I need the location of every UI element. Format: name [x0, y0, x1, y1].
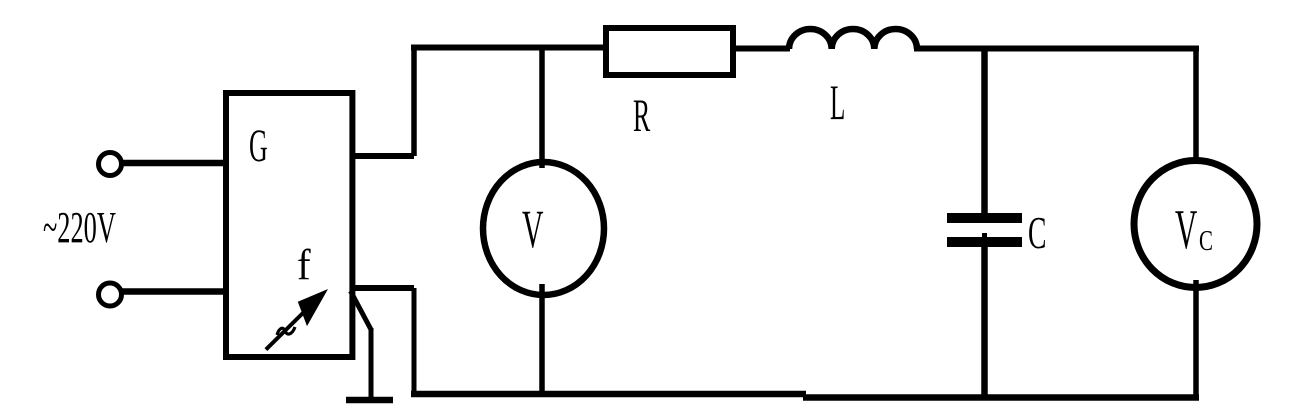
wire V_C top lead [1193, 46, 1199, 163]
voltmeter V circle [483, 162, 604, 295]
arrow shaft (frequency adjust) [266, 309, 307, 350]
svg-text:f: f [297, 242, 311, 289]
wire top rail to resistor [411, 45, 606, 51]
wire V_C bottom lead [1193, 280, 1199, 401]
voltmeter VC circle [1134, 161, 1257, 288]
wire bottom rail right segment [803, 394, 1199, 401]
capacitor inter-plate stub [982, 233, 987, 240]
wire G lower output [352, 285, 414, 291]
wire inductor to top right corner [914, 46, 1199, 52]
wire bottom rail left segment [411, 391, 806, 398]
capacitor C bottom plate [947, 237, 1022, 247]
wire lower terminal to G [122, 288, 227, 295]
capacitor C top plate [947, 213, 1022, 223]
svg-text:C: C [1199, 225, 1213, 257]
svg-text:~220V: ~220V [43, 203, 116, 252]
squiggle on arrow shaft [277, 327, 295, 335]
svg-text:R: R [633, 90, 651, 142]
wire voltmeter V top lead [539, 45, 545, 168]
wire capacitor top lead [981, 48, 988, 218]
svg-text:C: C [1028, 208, 1046, 259]
generator box G [226, 93, 352, 357]
resistor R [606, 28, 733, 75]
svg-text:V: V [522, 200, 543, 259]
wire upper terminal to G [122, 160, 227, 167]
wire voltmeter V bottom lead [539, 284, 545, 397]
svg-text:L: L [830, 75, 845, 131]
terminal lower left [99, 283, 122, 306]
svg-text:V: V [1175, 198, 1197, 260]
switch blade diagonal [351, 291, 372, 331]
wire G upper output [352, 153, 414, 159]
arrow head [298, 289, 328, 326]
svg-text:G: G [249, 120, 268, 172]
inductor L [789, 29, 917, 49]
switch T-bar [346, 397, 393, 404]
switch post vertical [369, 328, 374, 400]
wire resistor to inductor [733, 46, 790, 52]
wire capacitor bottom lead [981, 242, 988, 397]
terminal upper left [99, 153, 122, 176]
wire vertical down to bottom rail [412, 288, 417, 397]
wire vertical up to top rail [411, 45, 417, 156]
